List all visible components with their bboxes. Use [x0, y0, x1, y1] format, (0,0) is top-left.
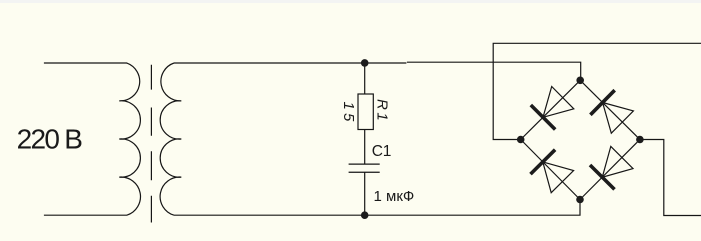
- svg-text:C1: C1: [372, 143, 391, 160]
- transformer core (dashed): [150, 65, 152, 223]
- bridge node left: [517, 136, 525, 144]
- diode VD2 cathode bar: [590, 90, 614, 115]
- wire bridge plus output: left node up over to right edge: [493, 43, 701, 139]
- bridge edge top-left: [521, 80, 581, 139]
- wire bridge minus output: right node down to right edge: [640, 140, 701, 216]
- transformer T1 secondary winding: [160, 63, 181, 215]
- bridge node right: [636, 136, 644, 144]
- bridge node bottom: [576, 196, 584, 204]
- diode VD2 triangle (top-right arm): [603, 103, 634, 134]
- svg-text:15: 15: [340, 102, 357, 125]
- wire secondary top to bridge top node: [174, 62, 406, 64]
- bridge node top: [576, 77, 584, 85]
- junction node bottom (C1 tap): [361, 211, 369, 219]
- diode VD4 triangle (bottom-right arm): [602, 146, 633, 177]
- wire R1 branch from top junction: [364, 63, 366, 94]
- wire secondary bottom to bridge bottom node: [174, 200, 580, 216]
- diode VD3 cathode bar: [531, 150, 556, 174]
- wire (right part, 1px seam step as in original): [407, 62, 581, 80]
- diode VD4 cathode bar: [590, 165, 615, 189]
- diode VD1 triangle (top-left arm): [543, 87, 574, 118]
- bridge edge bottom-right: [580, 140, 640, 200]
- diode VD1 cathode bar: [531, 105, 555, 130]
- diode VD3 triangle (bottom-left arm): [543, 162, 574, 193]
- wire R1 to C1: [364, 130, 366, 165]
- capacitor C1 bottom plate: [349, 171, 380, 173]
- wire C1 to bottom rail: [364, 172, 366, 215]
- resistor R1 body: [358, 94, 373, 130]
- junction node top (R1 tap): [361, 59, 369, 67]
- bridge edge top-right: [580, 80, 640, 139]
- capacitor C1 top plate: [349, 163, 380, 165]
- svg-text:220 В: 220 В: [17, 123, 83, 154]
- svg-text:1 мкФ: 1 мкФ: [374, 188, 415, 205]
- svg-text:R1: R1: [373, 99, 390, 123]
- bridge edge bottom-left: [521, 140, 580, 200]
- transformer T1 primary winding: [44, 63, 141, 215]
